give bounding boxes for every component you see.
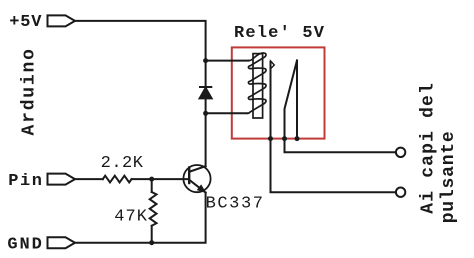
svg-text:47K: 47K <box>114 208 148 227</box>
svg-text:+5V: +5V <box>9 13 42 32</box>
svg-text:Rele' 5V: Rele' 5V <box>234 24 325 43</box>
svg-text:Ai capi del: Ai capi del <box>419 82 439 214</box>
svg-text:GND: GND <box>7 236 43 255</box>
svg-text:Pin: Pin <box>8 172 43 191</box>
svg-text:2.2K: 2.2K <box>101 154 144 173</box>
svg-text:BC337: BC337 <box>206 195 265 214</box>
svg-text:Arduino: Arduino <box>20 47 40 135</box>
svg-text:pulsante: pulsante <box>439 130 459 223</box>
